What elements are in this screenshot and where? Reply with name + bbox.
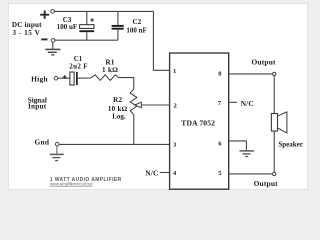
svg-text:1: 1 (173, 68, 176, 75)
svg-text:N/C: N/C (241, 99, 254, 108)
svg-text:C2: C2 (133, 18, 142, 26)
svg-text:1 kΩ: 1 kΩ (102, 66, 118, 74)
wire input to C1 (58, 77, 70, 79)
wire V+ down to pin 1 (153, 11, 169, 70)
svg-text:TDA 7052: TDA 7052 (181, 118, 215, 127)
terminal - circle (51, 39, 55, 43)
svg-text:N/C: N/C (145, 168, 158, 177)
svg-text:www.amplifiercircuit.net: www.amplifiercircuit.net (50, 182, 94, 187)
terminal output top circle (273, 72, 276, 75)
wire pin 5 to output terminal (229, 173, 273, 175)
label Signal Input (28, 97, 47, 111)
wire pin 7 stub (229, 101, 237, 103)
wire output top to speaker (273, 76, 275, 114)
op-amp U1 TDA7052 IC body (170, 53, 229, 189)
wire pin 8 to output terminal (229, 73, 273, 75)
wire ground rail (55, 39, 118, 41)
wire R2 bottom to ground rail (133, 115, 135, 144)
capacitor C1 (70, 72, 77, 85)
svg-text:100 nF: 100 nF (126, 27, 146, 35)
potentiometer R2 label (108, 95, 128, 120)
wire pin 6 to ground (229, 141, 247, 150)
speaker LS1 (271, 112, 287, 133)
capacitor C3 (79, 11, 94, 40)
wire R1 to R2 top (119, 78, 134, 89)
svg-text:Output: Output (254, 179, 279, 188)
ground symbol Gnd terminal (50, 146, 64, 161)
ground symbol pin 6 (240, 151, 255, 157)
capacitor C3 label (57, 16, 77, 31)
wire C1 to R1 (78, 77, 91, 79)
svg-text:Speaker: Speaker (278, 140, 303, 148)
terminal output bottom circle (273, 172, 276, 175)
label DC input 3-15V (12, 21, 42, 37)
svg-text:3 - 15 V: 3 - 15 V (12, 29, 40, 37)
terminal + circle (51, 10, 55, 14)
positive supply terminal plus sign (40, 11, 49, 19)
svg-text:Output: Output (251, 57, 276, 66)
svg-text:High: High (31, 75, 48, 84)
potentiometer R2 resistor body (130, 89, 137, 115)
resistor R1 label (102, 57, 118, 74)
capacitor C1 label (69, 55, 88, 70)
terminal Gnd circle (55, 142, 59, 146)
capacitor C2 (112, 11, 124, 40)
svg-text:DC input: DC input (12, 21, 42, 29)
svg-text:2u2 F: 2u2 F (69, 62, 88, 70)
terminal High circle (54, 76, 58, 80)
wire N/C to pin 4 (160, 172, 170, 174)
svg-text:Input: Input (28, 103, 47, 111)
capacitor C1 polarity + (63, 75, 67, 79)
wire speaker to output bottom (273, 131, 275, 172)
svg-text:R2: R2 (113, 95, 122, 104)
svg-text:100 uF: 100 uF (57, 23, 77, 31)
wire V+ top rail (55, 10, 154, 12)
svg-text:Gnd: Gnd (34, 138, 49, 147)
wire Gnd rail to pin 3 (59, 143, 170, 145)
negative supply terminal minus sign (41, 38, 47, 40)
resistor R1 (91, 75, 119, 81)
capacitor C3 polarity + (90, 18, 94, 22)
capacitor C2 label (126, 18, 146, 34)
potentiometer R2 wiper arrow (135, 102, 170, 108)
ground symbol DC input (45, 42, 60, 55)
svg-text:Log.: Log. (112, 112, 126, 120)
